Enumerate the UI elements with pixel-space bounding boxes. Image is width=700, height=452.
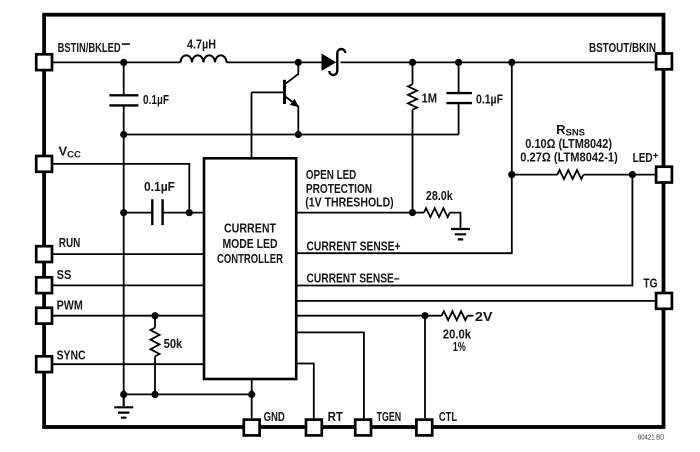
svg-text:50k: 50k <box>164 336 183 351</box>
svg-text:2V: 2V <box>475 309 493 324</box>
svg-text:80421 BD: 80421 BD <box>638 434 665 441</box>
svg-text:0.1µF: 0.1µF <box>476 92 503 107</box>
svg-text:1%: 1% <box>453 339 466 354</box>
svg-text:0.27Ω (LTM8042-1): 0.27Ω (LTM8042-1) <box>520 150 618 165</box>
svg-text:TG: TG <box>643 276 657 291</box>
svg-text:0.1µF: 0.1µF <box>144 179 175 194</box>
svg-text:RUN: RUN <box>59 235 81 250</box>
svg-text:GND: GND <box>264 409 285 424</box>
svg-text:SS: SS <box>57 267 72 282</box>
svg-text:LED: LED <box>633 150 653 165</box>
svg-text:CTL: CTL <box>439 409 457 424</box>
svg-text:28.0k: 28.0k <box>426 188 453 203</box>
svg-text:CURRENT SENSE–: CURRENT SENSE– <box>307 270 400 285</box>
svg-text:(1V THRESHOLD): (1V THRESHOLD) <box>305 194 393 209</box>
svg-text:0.1µF: 0.1µF <box>143 92 169 107</box>
svg-text:MODE LED: MODE LED <box>223 236 278 251</box>
svg-text:BSTOUT/BKIN: BSTOUT/BKIN <box>589 40 656 55</box>
svg-text:OPEN LED: OPEN LED <box>306 167 356 182</box>
svg-text:PWM: PWM <box>57 298 83 313</box>
svg-text:RT: RT <box>328 409 343 424</box>
svg-text:CURRENT SENSE+: CURRENT SENSE+ <box>307 238 401 253</box>
svg-text:TGEN: TGEN <box>377 409 402 424</box>
svg-text:BSTIN/BKLED: BSTIN/BKLED <box>58 40 121 55</box>
svg-text:1M: 1M <box>422 91 438 106</box>
svg-text:CURRENT: CURRENT <box>224 221 276 236</box>
svg-text:4.7µH: 4.7µH <box>187 36 216 51</box>
svg-text:CONTROLLER: CONTROLLER <box>217 251 283 266</box>
svg-text:+: + <box>653 151 659 162</box>
svg-text:SYNC: SYNC <box>57 348 86 363</box>
